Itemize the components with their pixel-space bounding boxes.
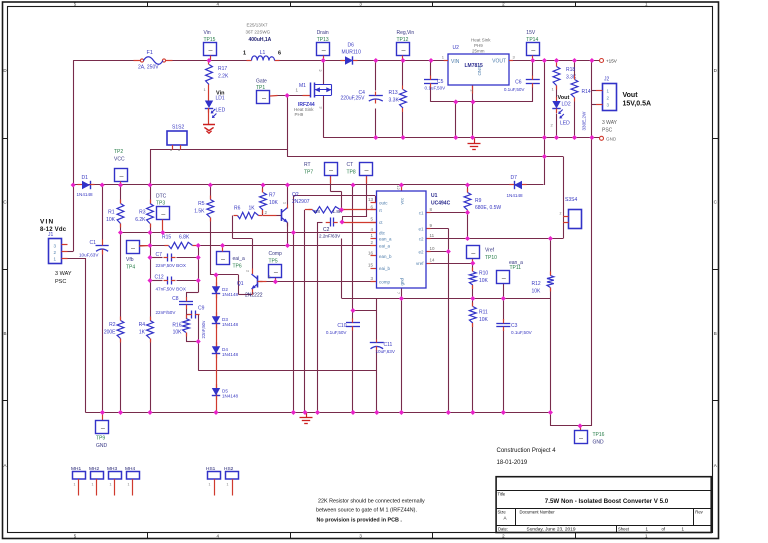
svg-text:U2: U2: [453, 45, 460, 51]
svg-text:TP6: TP6: [233, 264, 242, 270]
svg-text:3 WAY: 3 WAY: [55, 271, 72, 277]
svg-text:C11: C11: [384, 342, 393, 348]
svg-text:15V,0.5A: 15V,0.5A: [623, 101, 652, 108]
svg-text:C9: C9: [198, 306, 205, 312]
svg-text:B: B: [714, 331, 717, 336]
svg-text:L1: L1: [260, 50, 266, 56]
svg-text:3.3K: 3.3K: [389, 98, 400, 104]
svg-text:2: 2: [560, 212, 562, 216]
svg-text:Vout: Vout: [623, 92, 639, 99]
svg-text:ean_b: ean_b: [379, 254, 392, 259]
svg-text:Q2: Q2: [292, 192, 299, 198]
svg-text:CT: CT: [347, 162, 354, 168]
svg-text:R7: R7: [269, 193, 276, 199]
svg-text:RT: RT: [304, 162, 311, 168]
svg-text:18-01-2019: 18-01-2019: [497, 460, 528, 466]
svg-text:R16: R16: [172, 323, 181, 329]
svg-text:C2: C2: [323, 227, 330, 233]
svg-text:1N4148: 1N4148: [222, 394, 239, 399]
svg-text:LD1: LD1: [216, 96, 225, 102]
svg-text:R6: R6: [234, 206, 241, 212]
svg-text:S1S2: S1S2: [172, 125, 184, 131]
svg-text:Document Number: Document Number: [520, 509, 556, 514]
svg-text:10K: 10K: [173, 330, 183, 336]
svg-text:C3: C3: [511, 323, 518, 329]
svg-text:C10: C10: [337, 323, 346, 329]
svg-text:R3: R3: [139, 210, 146, 216]
svg-text:2.2K: 2.2K: [218, 74, 229, 80]
svg-text:A: A: [714, 463, 717, 468]
svg-text:eai_b: eai_b: [379, 266, 391, 271]
svg-text:25mm: 25mm: [472, 49, 485, 54]
svg-text:Sunday, June 23, 2019: Sunday, June 23, 2019: [527, 527, 576, 533]
svg-text:Comp: Comp: [269, 251, 283, 257]
svg-text:LED: LED: [216, 108, 226, 114]
svg-text:DTC: DTC: [156, 194, 167, 200]
svg-text:22nF,50V BOX: 22nF,50V BOX: [156, 263, 186, 268]
svg-text:10uF,63V: 10uF,63V: [79, 253, 99, 258]
svg-text:TP4: TP4: [126, 265, 135, 271]
svg-text:a: a: [178, 148, 180, 152]
svg-text:MUR110: MUR110: [342, 50, 362, 56]
svg-text:TP9: TP9: [96, 436, 105, 442]
svg-text:A: A: [3, 463, 6, 468]
svg-text:R17: R17: [218, 66, 227, 72]
svg-text:11: 11: [430, 233, 435, 238]
svg-text:10K: 10K: [269, 200, 279, 206]
svg-text:C8: C8: [172, 296, 179, 302]
svg-text:GND: GND: [477, 66, 482, 77]
svg-text:Heat Sink: Heat Sink: [471, 38, 491, 43]
svg-text:22nF,50v: 22nF,50v: [201, 320, 206, 339]
svg-text:6.2K: 6.2K: [135, 217, 146, 223]
svg-text:c2: c2: [419, 237, 424, 242]
svg-text:Vin: Vin: [204, 30, 211, 36]
svg-text:outc: outc: [379, 201, 388, 206]
svg-text:0.1uF,50V: 0.1uF,50V: [425, 86, 447, 91]
svg-text:eai_a: eai_a: [233, 256, 245, 262]
svg-text:10K: 10K: [479, 278, 489, 284]
svg-text:R5: R5: [198, 201, 205, 207]
svg-text:Sheet: Sheet: [618, 527, 630, 532]
svg-text:1N4148: 1N4148: [222, 322, 239, 327]
svg-text:VIN: VIN: [40, 219, 54, 226]
svg-text:C7: C7: [156, 252, 163, 258]
svg-text:No provision is provided in PC: No provision is provided in PCB .: [317, 518, 403, 524]
svg-text:VIN: VIN: [451, 59, 460, 65]
svg-text:e1: e1: [418, 226, 424, 231]
svg-text:+15V: +15V: [606, 59, 618, 64]
svg-text:2.2nF/63V: 2.2nF/63V: [319, 234, 341, 239]
svg-text:J2: J2: [604, 77, 610, 83]
svg-text:1: 1: [243, 51, 246, 57]
svg-text:GND: GND: [593, 440, 605, 446]
svg-text:vcc: vcc: [400, 197, 405, 205]
svg-text:R4: R4: [139, 322, 146, 328]
svg-text:TP11: TP11: [510, 265, 522, 271]
svg-text:between source to gate of M 1: between source to gate of M 1 (IRFZ44N).: [316, 508, 417, 514]
svg-text:6: 6: [278, 51, 281, 57]
svg-text:A: A: [504, 516, 507, 521]
svg-text:R18: R18: [566, 67, 575, 73]
svg-text:Vref: Vref: [485, 248, 495, 254]
svg-text:Vfb: Vfb: [126, 257, 134, 263]
svg-text:1K: 1K: [139, 330, 146, 336]
svg-text:GND: GND: [606, 137, 617, 142]
svg-text:6.8K: 6.8K: [179, 235, 190, 241]
svg-text:R11: R11: [479, 310, 488, 316]
svg-text:16: 16: [368, 250, 374, 255]
svg-text:Q1: Q1: [237, 281, 244, 287]
svg-text:UC494C: UC494C: [431, 200, 451, 206]
svg-text:TP3: TP3: [156, 201, 165, 207]
svg-text:U1: U1: [431, 193, 438, 199]
svg-text:1: 1: [92, 483, 94, 487]
svg-text:8-12 Vdc: 8-12 Vdc: [40, 227, 67, 233]
svg-text:13: 13: [368, 197, 374, 202]
svg-text:36T 22SWG: 36T 22SWG: [246, 30, 271, 35]
svg-text:TP16: TP16: [593, 432, 605, 438]
svg-text:TP2: TP2: [114, 149, 123, 155]
svg-text:C6: C6: [515, 80, 522, 86]
svg-text:a: a: [170, 148, 172, 152]
svg-text:gnd: gnd: [400, 277, 405, 285]
svg-text:J1: J1: [48, 232, 54, 238]
svg-text:Date:: Date:: [498, 527, 508, 532]
svg-text:1: 1: [227, 483, 229, 487]
svg-text:47nF,50V BOX: 47nF,50V BOX: [156, 287, 186, 292]
svg-text:3 WAY: 3 WAY: [602, 120, 618, 126]
svg-text:R2: R2: [109, 322, 116, 328]
svg-text:Title: Title: [498, 492, 506, 497]
svg-text:680E, 0.5W: 680E, 0.5W: [475, 205, 501, 211]
svg-text:Reg,Vin: Reg,Vin: [397, 30, 415, 36]
svg-text:M1: M1: [299, 83, 306, 89]
svg-text:10K: 10K: [106, 217, 116, 223]
svg-text:e2: e2: [418, 250, 424, 255]
svg-text:R14: R14: [582, 89, 591, 95]
svg-text:TP8: TP8: [347, 170, 356, 176]
svg-text:22nF/50V: 22nF/50V: [156, 310, 177, 315]
svg-text:15V: 15V: [526, 30, 536, 36]
svg-text:LD2: LD2: [562, 102, 571, 108]
svg-text:10K: 10K: [479, 317, 489, 323]
svg-text:200E: 200E: [104, 330, 116, 336]
svg-text:1N4148: 1N4148: [222, 352, 239, 357]
svg-text:D6: D6: [348, 43, 355, 49]
svg-text:1: 1: [128, 483, 130, 487]
svg-text:0.1uF,50V: 0.1uF,50V: [326, 330, 348, 335]
svg-text:PH9: PH9: [474, 43, 483, 48]
svg-text:10: 10: [430, 246, 436, 251]
svg-text:R12: R12: [532, 281, 541, 287]
svg-text:C1: C1: [90, 240, 97, 246]
svg-text:D1: D1: [82, 175, 89, 181]
svg-text:GND: GND: [96, 443, 108, 449]
svg-text:PSC: PSC: [55, 279, 66, 285]
svg-text:R1: R1: [108, 210, 115, 216]
svg-text:c1: c1: [419, 211, 424, 216]
svg-text:Vout: Vout: [558, 95, 570, 101]
svg-text:22K Resistor should be connect: 22K Resistor should be connected externa…: [318, 499, 425, 505]
svg-text:vref: vref: [416, 261, 424, 266]
svg-text:1N4148: 1N4148: [77, 192, 94, 197]
svg-text:ean_a: ean_a: [379, 237, 392, 242]
svg-text:LED: LED: [560, 121, 570, 127]
svg-text:220uF,25V: 220uF,25V: [341, 96, 366, 102]
svg-text:Drain: Drain: [317, 30, 329, 36]
svg-text:R8: R8: [314, 209, 320, 214]
svg-text:1: 1: [209, 483, 211, 487]
svg-text:D7: D7: [511, 175, 518, 181]
svg-text:R15: R15: [162, 235, 171, 241]
svg-text:C5: C5: [437, 79, 444, 85]
svg-text:C12: C12: [155, 275, 164, 281]
svg-text:PH9: PH9: [295, 112, 304, 117]
svg-text:B: B: [3, 331, 6, 336]
svg-text:Construction Project 4: Construction Project 4: [497, 448, 557, 454]
svg-text:TP7: TP7: [304, 170, 313, 176]
svg-text:comp: comp: [379, 280, 391, 285]
svg-text:2N2222: 2N2222: [245, 293, 263, 299]
svg-text:1: 1: [74, 483, 76, 487]
svg-text:R10: R10: [479, 271, 488, 277]
svg-text:R13: R13: [389, 90, 398, 96]
svg-text:1N4148: 1N4148: [222, 292, 239, 297]
svg-text:2A, 250V: 2A, 250V: [138, 65, 159, 71]
svg-text:eai_a: eai_a: [379, 244, 391, 249]
svg-text:14: 14: [430, 258, 436, 263]
svg-text:F1: F1: [147, 50, 153, 56]
svg-text:VOUT: VOUT: [492, 59, 506, 65]
svg-text:10uF,63V: 10uF,63V: [376, 349, 396, 354]
svg-text:10K: 10K: [532, 289, 542, 295]
svg-text:dtc: dtc: [379, 231, 386, 236]
svg-text:2N2907: 2N2907: [292, 199, 310, 205]
svg-text:R9: R9: [475, 198, 482, 204]
svg-text:7.5W Non - Isolated Boost Co: 7.5W Non - Isolated Boost Converter V 5.…: [545, 498, 669, 505]
svg-text:TP10: TP10: [485, 255, 497, 261]
svg-text:PSC: PSC: [602, 128, 613, 134]
svg-text:1.5K: 1.5K: [194, 209, 205, 215]
svg-text:Gate: Gate: [256, 79, 267, 85]
svg-text:1: 1: [110, 483, 112, 487]
svg-text:Rev: Rev: [695, 509, 703, 514]
svg-text:0.1uF,50V: 0.1uF,50V: [504, 87, 526, 92]
svg-text:400uH,1A: 400uH,1A: [249, 37, 272, 43]
svg-text:15: 15: [368, 263, 374, 268]
svg-text:0.1uF,50V: 0.1uF,50V: [511, 330, 533, 335]
svg-text:S3S4: S3S4: [565, 197, 577, 203]
svg-text:1N4148: 1N4148: [507, 193, 524, 198]
svg-text:1K: 1K: [249, 206, 256, 212]
svg-text:E25/13/X7: E25/13/X7: [247, 23, 269, 28]
svg-text:Size: Size: [498, 509, 507, 514]
svg-text:TP5: TP5: [269, 259, 278, 265]
svg-text:VCC: VCC: [114, 157, 125, 163]
svg-text:330E,2W: 330E,2W: [582, 111, 587, 131]
